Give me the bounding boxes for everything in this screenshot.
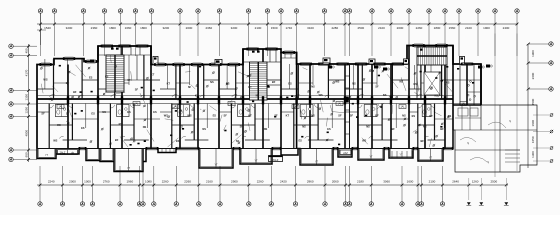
svg-text:ES: ES — [91, 112, 95, 116]
svg-text:1300: 1300 — [531, 151, 535, 158]
svg-text:ES: ES — [288, 81, 292, 85]
svg-text:ES: ES — [213, 114, 217, 118]
top dimension line — [37, 13, 518, 45]
svg-text:450: 450 — [25, 48, 29, 53]
svg-text:KT: KT — [248, 114, 252, 118]
svg-text:ES: ES — [105, 74, 109, 78]
svg-text:BF: BF — [391, 127, 395, 131]
svg-text:NS: NS — [402, 113, 406, 117]
svg-text:ES: ES — [127, 110, 131, 114]
svg-text:1250: 1250 — [25, 107, 29, 114]
svg-text:1660: 1660 — [125, 26, 132, 30]
svg-text:2260: 2260 — [162, 179, 169, 183]
stair core 3 — [417, 47, 447, 65]
svg-text:1800: 1800 — [434, 26, 441, 30]
svg-text:NS: NS — [311, 85, 315, 89]
svg-text:2260: 2260 — [257, 179, 264, 183]
room labels — [41, 73, 451, 170]
svg-text:2160: 2160 — [206, 179, 213, 183]
svg-text:NS: NS — [302, 124, 306, 128]
svg-text:BF: BF — [375, 113, 379, 117]
electrical wiring symbols — [40, 55, 476, 147]
top grid lines — [41, 13, 518, 56]
svg-text:YT: YT — [127, 167, 131, 170]
svg-text:1AL: 1AL — [58, 106, 63, 109]
svg-text:WS: WS — [43, 78, 47, 82]
svg-text:ES: ES — [119, 122, 123, 126]
unit party walls — [68, 46, 481, 149]
svg-text:1AL: 1AL — [229, 103, 234, 106]
svg-text:1740: 1740 — [285, 26, 292, 30]
svg-text:SF: SF — [66, 112, 70, 116]
svg-text:NS: NS — [366, 124, 370, 128]
svg-text:NS: NS — [311, 113, 315, 117]
svg-text:2000: 2000 — [69, 179, 76, 183]
svg-text:ES: ES — [57, 123, 61, 127]
svg-text:1560: 1560 — [449, 26, 456, 30]
svg-text:NS: NS — [423, 125, 427, 129]
top shaft bumps — [153, 56, 465, 64]
svg-text:SF: SF — [375, 85, 379, 89]
svg-text:1800: 1800 — [109, 26, 116, 30]
svg-text:YT: YT — [429, 157, 433, 160]
svg-text:2100: 2100 — [255, 26, 262, 30]
svg-text:4170: 4170 — [25, 69, 29, 76]
svg-text:3200: 3200 — [162, 26, 169, 30]
svg-text:ES: ES — [298, 139, 302, 143]
svg-text:SF: SF — [188, 85, 192, 89]
svg-text:YT: YT — [399, 154, 403, 157]
svg-text:2000: 2000 — [186, 26, 193, 30]
svg-text:SF: SF — [240, 125, 244, 129]
svg-text:1600: 1600 — [407, 179, 414, 183]
svg-text:2600: 2600 — [531, 72, 535, 79]
svg-text:SF: SF — [135, 88, 139, 92]
svg-text:2500: 2500 — [490, 179, 497, 183]
svg-text:WS: WS — [335, 80, 339, 84]
svg-text:SF: SF — [236, 139, 240, 143]
svg-text:2360: 2360 — [205, 26, 212, 30]
svg-text:ES: ES — [153, 110, 157, 114]
svg-text:1960: 1960 — [126, 179, 133, 183]
svg-text:BF: BF — [73, 90, 77, 94]
svg-text:2260: 2260 — [416, 26, 423, 30]
svg-text:2180: 2180 — [357, 179, 364, 183]
svg-text:2260: 2260 — [184, 179, 191, 183]
svg-text:1260: 1260 — [472, 179, 479, 183]
svg-text:NS: NS — [434, 94, 438, 98]
svg-text:3100: 3100 — [307, 26, 314, 30]
svg-text:1AL: 1AL — [134, 103, 139, 106]
top axis bubbles — [38, 9, 519, 13]
svg-text:BF: BF — [115, 138, 119, 142]
svg-text:SF: SF — [338, 113, 342, 117]
svg-text:YT: YT — [45, 154, 49, 157]
svg-text:ES: ES — [327, 127, 331, 131]
svg-text:YT: YT — [369, 156, 373, 159]
svg-text:KT: KT — [248, 85, 252, 89]
svg-text:2AZ: 2AZ — [343, 152, 348, 155]
svg-text:1600: 1600 — [531, 120, 535, 127]
spine wall jambs — [67, 96, 446, 104]
svg-text:3200: 3200 — [66, 26, 73, 30]
svg-text:ES: ES — [179, 125, 183, 129]
svg-text:2240: 2240 — [48, 179, 55, 183]
svg-text:NS: NS — [202, 127, 206, 131]
svg-text:3200: 3200 — [231, 26, 238, 30]
svg-text:SF: SF — [224, 114, 228, 118]
svg-text:ES: ES — [89, 76, 93, 80]
svg-text:SF: SF — [127, 78, 131, 82]
svg-text:SF: SF — [350, 113, 354, 117]
svg-text:NS: NS — [256, 93, 260, 97]
right annex thin structure — [453, 34, 537, 178]
svg-text:1800: 1800 — [140, 26, 147, 30]
svg-text:1080: 1080 — [145, 179, 152, 183]
distribution boxes — [57, 102, 467, 109]
svg-text:2060: 2060 — [332, 179, 339, 183]
balcony dividers — [129, 149, 431, 172]
svg-text:2900: 2900 — [231, 179, 238, 183]
svg-text:BF: BF — [420, 139, 424, 143]
interior partition walls — [37, 55, 492, 149]
svg-text:2ALZ: 2ALZ — [60, 152, 66, 155]
bottom wall windows — [79, 147, 454, 150]
right axis dimension — [527, 42, 554, 168]
svg-text:KT: KT — [429, 114, 433, 118]
svg-text:2640: 2640 — [452, 179, 459, 183]
svg-text:2500: 2500 — [357, 26, 364, 30]
svg-text:ES: ES — [412, 114, 416, 118]
svg-text:BF: BF — [440, 127, 444, 131]
svg-text:WS: WS — [164, 114, 168, 118]
svg-text:1AL: 1AL — [293, 106, 298, 109]
svg-text:WS: WS — [53, 138, 57, 142]
svg-text:2100: 2100 — [429, 179, 436, 183]
svg-text:1350: 1350 — [25, 94, 29, 101]
svg-text:1AL: 1AL — [400, 106, 405, 109]
svg-text:2960: 2960 — [307, 179, 314, 183]
svg-text:2100: 2100 — [378, 26, 385, 30]
svg-text:NS: NS — [102, 110, 106, 114]
bottom dimension line — [37, 179, 508, 186]
svg-text:ES: ES — [81, 126, 85, 130]
svg-text:NS: NS — [352, 81, 356, 85]
svg-text:YT: YT — [254, 160, 258, 163]
svg-text:SF: SF — [41, 112, 45, 116]
sub-block bottom wall — [453, 104, 481, 106]
svg-text:NS: NS — [446, 80, 450, 84]
svg-text:ES: ES — [413, 82, 417, 86]
svg-text:KT: KT — [286, 113, 290, 117]
svg-text:KT: KT — [167, 82, 171, 86]
svg-text:NS: NS — [210, 80, 214, 84]
svg-text:1540: 1540 — [44, 26, 51, 30]
bottom grid lines — [40, 166, 506, 202]
svg-text:WS: WS — [187, 114, 191, 118]
svg-text:1900: 1900 — [531, 50, 535, 57]
svg-text:2760: 2760 — [103, 179, 110, 183]
middle spine wall — [37, 96, 481, 104]
svg-text:NS: NS — [383, 93, 387, 97]
stair core 1 — [106, 55, 124, 92]
svg-text:3ALZ: 3ALZ — [273, 159, 279, 162]
svg-text:2100: 2100 — [465, 26, 472, 30]
under-edge label boxes and steps — [58, 149, 413, 163]
svg-text:YT: YT — [214, 164, 218, 167]
left axis bubbles and dimension — [9, 44, 37, 162]
svg-text:950: 950 — [25, 152, 29, 157]
building outer walls — [37, 46, 481, 149]
svg-text:2000: 2000 — [397, 26, 404, 30]
building bottom walls and balconies — [37, 130, 453, 172]
svg-text:2360: 2360 — [91, 26, 98, 30]
svg-text:4500: 4500 — [531, 98, 535, 105]
svg-text:BF: BF — [66, 81, 70, 85]
svg-text:KT: KT — [151, 73, 155, 77]
svg-text:4000: 4000 — [25, 130, 29, 137]
svg-text:WS: WS — [319, 93, 323, 97]
svg-text:1500: 1500 — [271, 26, 278, 30]
tower block small rooms — [98, 46, 447, 100]
svg-text:1AL: 1AL — [173, 106, 178, 109]
svg-text:1900: 1900 — [483, 26, 490, 30]
svg-text:2420: 2420 — [280, 179, 287, 183]
bottom axis bubbles — [38, 202, 509, 206]
svg-text:3060: 3060 — [383, 179, 390, 183]
svg-text:2400: 2400 — [503, 26, 510, 30]
svg-text:NS: NS — [264, 127, 268, 131]
svg-text:1000: 1000 — [84, 179, 91, 183]
svg-text:1AL: 1AL — [337, 103, 342, 106]
svg-text:YT: YT — [315, 161, 319, 164]
stair core 2 — [250, 62, 268, 100]
svg-text:1650: 1650 — [531, 136, 535, 143]
windows — [39, 44, 473, 66]
svg-text:BF: BF — [272, 80, 276, 84]
svg-text:2280: 2280 — [331, 26, 338, 30]
svg-text:NS: NS — [143, 125, 147, 129]
